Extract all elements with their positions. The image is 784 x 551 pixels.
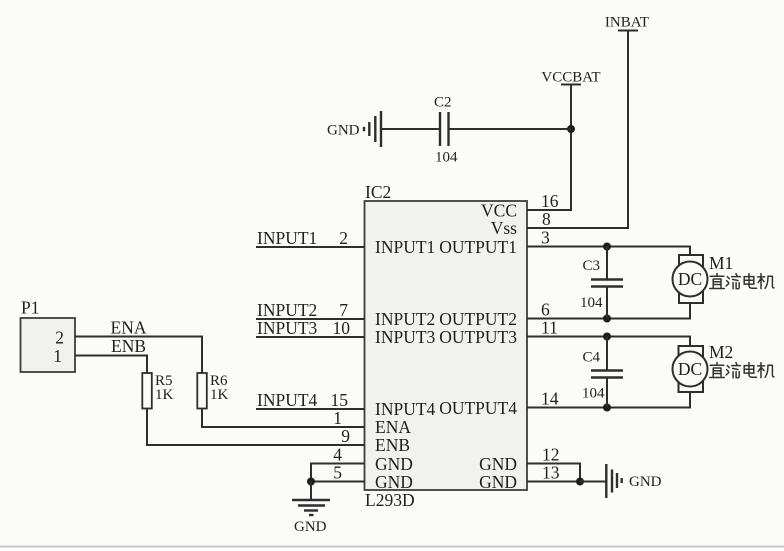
svg-text:OUTPUT1: OUTPUT1 <box>439 237 517 257</box>
svg-text:104: 104 <box>582 386 605 402</box>
svg-text:12: 12 <box>542 445 560 465</box>
wire VCCBAT to pin 16 <box>527 85 571 211</box>
svg-text:2: 2 <box>339 228 348 248</box>
power port INBAT <box>605 15 649 31</box>
resistor R6 <box>197 373 228 409</box>
wire ENB net: P1 pin1 to R5 top <box>75 356 147 374</box>
svg-text:15: 15 <box>331 390 349 410</box>
svg-text:INPUT3: INPUT3 <box>375 327 436 347</box>
svg-text:Vss: Vss <box>491 218 517 238</box>
svg-text:ENA: ENA <box>111 318 147 338</box>
ground symbol right <box>606 464 621 498</box>
svg-text:GND: GND <box>479 454 517 474</box>
wire pin 6 (OUTPUT2) to M1 bottom <box>527 303 690 319</box>
svg-text:7: 7 <box>339 300 348 320</box>
junction C3 top <box>603 243 611 251</box>
svg-text:INPUT2: INPUT2 <box>375 309 435 329</box>
svg-text:INPUT1: INPUT1 <box>257 228 317 248</box>
bottom page edge line <box>0 546 784 548</box>
op-amp IC2 body (L293D driver) <box>365 182 528 510</box>
connector P1 <box>21 298 76 373</box>
power port VCCBAT <box>541 70 600 86</box>
wire GND to C2 <box>381 128 440 130</box>
svg-text:VCCBAT: VCCBAT <box>541 70 600 86</box>
svg-text:OUTPUT4: OUTPUT4 <box>439 398 517 418</box>
wire pin 4 to ground drop <box>311 464 365 482</box>
junction C3 bottom <box>603 315 611 323</box>
svg-text:3: 3 <box>541 228 550 248</box>
svg-text:6: 6 <box>541 300 550 320</box>
svg-text:GND: GND <box>629 474 662 490</box>
wire pin 5 to ground drop <box>311 481 365 483</box>
svg-text:1K: 1K <box>210 387 229 403</box>
svg-text:GND: GND <box>375 472 413 492</box>
svg-text:M2: M2 <box>709 342 733 362</box>
svg-text:11: 11 <box>541 318 558 338</box>
svg-text:P1: P1 <box>21 298 39 318</box>
capacitor C3 <box>580 247 623 319</box>
wire pin 12 to right ground <box>527 464 580 482</box>
svg-text:13: 13 <box>542 463 560 483</box>
svg-text:OUTPUT3: OUTPUT3 <box>439 327 517 347</box>
svg-text:C3: C3 <box>582 258 600 274</box>
wire INPUT4 net (pin 15) <box>256 408 365 410</box>
junction VCCBAT / C2 <box>567 125 575 133</box>
svg-text:OUTPUT2: OUTPUT2 <box>439 309 517 329</box>
svg-text:4: 4 <box>333 445 342 465</box>
svg-text:INPUT4: INPUT4 <box>375 399 436 419</box>
svg-text:L293D: L293D <box>365 490 415 510</box>
svg-text:GND: GND <box>294 519 327 535</box>
svg-text:1: 1 <box>53 346 62 366</box>
svg-text:INPUT2: INPUT2 <box>257 300 317 320</box>
svg-text:INPUT1: INPUT1 <box>375 237 435 257</box>
svg-text:DC: DC <box>678 359 702 379</box>
motor M2 <box>673 342 734 392</box>
svg-text:1K: 1K <box>155 387 174 403</box>
wire R6 bottom to IC pin 1 (ENA) <box>202 409 365 428</box>
svg-text:DC: DC <box>678 269 702 289</box>
svg-text:5: 5 <box>333 463 342 483</box>
junction C4 bottom <box>603 404 611 412</box>
svg-text:C4: C4 <box>582 350 600 366</box>
svg-text:ENB: ENB <box>375 435 410 455</box>
wire to right GND symbol <box>580 481 606 483</box>
resistor R5 <box>142 373 173 409</box>
svg-text:GND: GND <box>327 123 360 139</box>
svg-text:M1: M1 <box>709 253 733 273</box>
svg-text:INPUT4: INPUT4 <box>257 390 318 410</box>
wire ENA net: P1 pin2 to R6 top <box>75 337 202 374</box>
wire INBAT to pin 8 <box>527 31 628 229</box>
svg-text:8: 8 <box>542 209 551 229</box>
ground symbol top-left <box>364 111 381 147</box>
svg-text:2: 2 <box>55 328 64 348</box>
junction C4 top <box>603 333 611 341</box>
svg-text:ENB: ENB <box>111 336 146 356</box>
wire pin 3 (OUTPUT1) to M1 top <box>527 247 690 256</box>
svg-text:ENA: ENA <box>375 417 411 437</box>
svg-text:1: 1 <box>333 408 342 428</box>
wire INPUT2 net (pin 7) <box>256 318 365 320</box>
ground (earth) symbol bottom <box>292 500 330 515</box>
svg-text:GND: GND <box>375 454 413 474</box>
wire INPUT3 net (pin 10) <box>256 336 365 338</box>
wire INPUT1 net (pin 2) <box>256 246 365 248</box>
motor M1 <box>673 253 734 303</box>
svg-text:10: 10 <box>333 318 351 338</box>
capacitor C4 <box>582 337 623 408</box>
svg-text:104: 104 <box>435 150 458 166</box>
wire down to GND symbol <box>310 482 312 501</box>
svg-text:104: 104 <box>580 295 603 311</box>
svg-text:C2: C2 <box>434 95 452 111</box>
svg-text:9: 9 <box>341 426 350 446</box>
wire pin 11 (OUTPUT3) to M2 top <box>527 337 690 347</box>
wire pin 13 to right ground <box>527 481 580 483</box>
label M2 直流电机 <box>710 363 774 378</box>
wire pin 14 (OUTPUT4) to M2 bottom <box>527 392 690 408</box>
wire C2 to VCCBAT junction <box>449 128 572 130</box>
svg-text:INPUT3: INPUT3 <box>257 318 318 338</box>
label M1 直流电机 <box>710 274 774 289</box>
svg-text:16: 16 <box>541 191 559 211</box>
svg-text:IC2: IC2 <box>365 182 391 202</box>
wire R5 bottom to IC pin 9 (ENB) <box>147 409 365 446</box>
junction pin4/5 ground <box>307 478 315 486</box>
junction pin12/13 <box>576 478 584 486</box>
svg-text:INBAT: INBAT <box>605 15 649 31</box>
svg-text:14: 14 <box>541 389 559 409</box>
svg-text:GND: GND <box>479 472 517 492</box>
capacitor C2 <box>434 95 458 166</box>
